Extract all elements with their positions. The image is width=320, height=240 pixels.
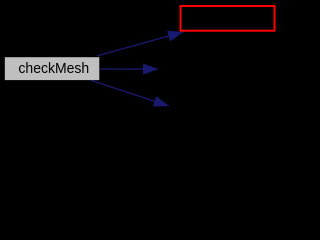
node checkMesh (current node, grey) — [5, 57, 100, 80]
svg-text:checkMesh: checkMesh — [18, 60, 89, 77]
wire: edge checkMesh -> top node — [98, 32, 184, 56]
wire: edge checkMesh -> bottom node — [91, 80, 169, 106]
wire: edge checkMesh -> middle node — [100, 68, 158, 70]
node: red-bordered box (truncated node) — [181, 6, 275, 31]
